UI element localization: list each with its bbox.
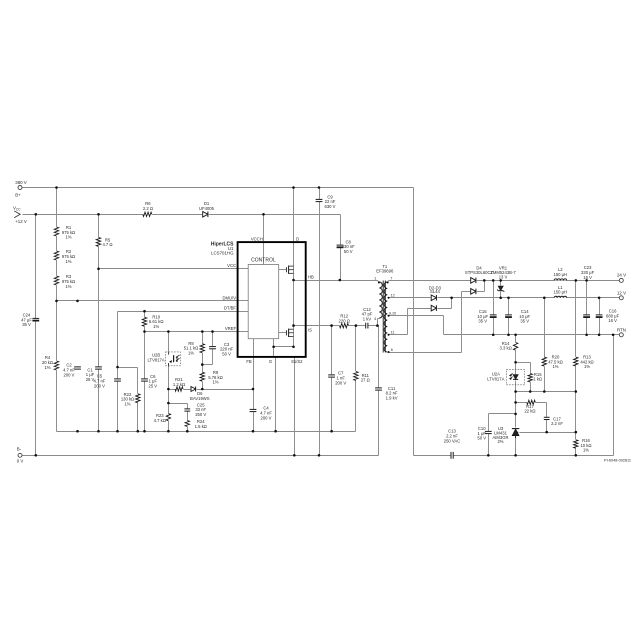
svg-text:3.3 kΩ: 3.3 kΩ [499, 346, 511, 351]
svg-text:1.9 kV: 1.9 kV [386, 395, 398, 400]
svg-text:SL44: SL44 [430, 289, 440, 294]
svg-text:200 V: 200 V [261, 415, 272, 420]
svg-text:1%: 1% [44, 365, 50, 370]
svg-text:B+: B+ [15, 193, 21, 198]
svg-text:200 V: 200 V [64, 372, 75, 377]
svg-text:12 V: 12 V [617, 290, 626, 295]
svg-text:50 V: 50 V [222, 351, 231, 356]
svg-text:7: 7 [390, 277, 392, 281]
svg-text:1%: 1% [65, 259, 71, 264]
svg-text:250 VAC: 250 VAC [444, 438, 460, 443]
svg-text:1%: 1% [583, 448, 589, 453]
svg-text:35 V: 35 V [520, 319, 529, 324]
svg-text:BAV19WS: BAV19WS [190, 396, 210, 401]
svg-text:1%: 1% [584, 364, 590, 369]
svg-text:35 V: 35 V [478, 319, 487, 324]
svg-text:1%: 1% [188, 350, 194, 355]
svg-text:6: 6 [391, 348, 393, 352]
svg-text:1%: 1% [153, 324, 159, 329]
svg-text:13 V: 13 V [499, 274, 508, 279]
svg-text:9,10: 9,10 [389, 312, 396, 316]
svg-text:IS: IS [308, 328, 312, 333]
svg-text:EF39696: EF39696 [376, 269, 394, 274]
svg-text:LTV817A: LTV817A [487, 376, 504, 381]
svg-text:4.7 Ω: 4.7 Ω [102, 242, 112, 247]
svg-text:UF4005: UF4005 [199, 206, 215, 211]
svg-text:1%: 1% [65, 284, 71, 289]
svg-text:2.2 Ω: 2.2 Ω [143, 206, 153, 211]
svg-text:1%: 1% [124, 401, 130, 406]
svg-text:630 V: 630 V [325, 204, 336, 209]
svg-text:50 V: 50 V [477, 436, 486, 441]
svg-text:LCS701HG: LCS701HG [211, 251, 234, 256]
svg-text:1 kΩ: 1 kΩ [533, 377, 542, 382]
svg-text:1%: 1% [65, 235, 71, 240]
svg-text:12: 12 [391, 293, 395, 297]
svg-text:250 V: 250 V [195, 412, 206, 417]
svg-text:RTN: RTN [617, 327, 626, 332]
svg-text:50 V: 50 V [344, 249, 353, 254]
svg-text:2.2 nF: 2.2 nF [551, 421, 563, 426]
svg-text:CONTROL: CONTROL [251, 258, 276, 264]
svg-text:VCCH: VCCH [251, 236, 263, 241]
svg-text:HB: HB [308, 275, 314, 280]
svg-text:22 kΩ: 22 kΩ [524, 409, 535, 414]
svg-text:16 V: 16 V [583, 275, 592, 280]
svg-text:1%: 1% [212, 380, 218, 385]
svg-text:1 kV: 1 kV [363, 316, 372, 321]
svg-text:1.2 kΩ: 1.2 kΩ [173, 382, 185, 387]
svg-text:PI-6048-092811: PI-6048-092811 [604, 459, 631, 463]
svg-text:D: D [296, 236, 299, 241]
svg-text:25 V: 25 V [148, 383, 157, 388]
svg-text:1.5 kΩ: 1.5 kΩ [195, 424, 207, 429]
svg-text:220 Ω: 220 Ω [339, 318, 350, 323]
svg-text:DMU/V: DMU/V [223, 295, 237, 300]
svg-text:LTV817A: LTV817A [148, 358, 165, 363]
svg-text:DT/BF: DT/BF [224, 306, 237, 311]
svg-text:24 V: 24 V [617, 273, 626, 278]
svg-text:16 V: 16 V [608, 318, 617, 323]
svg-text:11: 11 [391, 331, 395, 335]
svg-text:FB: FB [246, 359, 252, 364]
svg-text:150 μH: 150 μH [554, 272, 568, 277]
svg-text:+12 V: +12 V [15, 219, 27, 224]
svg-text:B-: B- [17, 447, 22, 452]
svg-text:G: G [269, 359, 272, 364]
svg-text:S1/S2: S1/S2 [291, 359, 303, 364]
svg-text:1%: 1% [552, 364, 558, 369]
svg-text:VCC: VCC [227, 263, 236, 268]
svg-text:4.7 kΩ: 4.7 kΩ [154, 418, 166, 423]
svg-text:0 V: 0 V [17, 459, 24, 464]
svg-text:380 V: 380 V [15, 180, 27, 185]
svg-text:STPS30L60CT: STPS30L60CT [465, 270, 494, 275]
svg-text:200 V: 200 V [335, 380, 346, 385]
svg-text:VREF: VREF [225, 326, 237, 331]
svg-text:27 Ω: 27 Ω [361, 378, 370, 383]
svg-text:4: 4 [374, 317, 376, 321]
svg-text:1: 1 [374, 277, 376, 281]
svg-text:200 V: 200 V [94, 383, 105, 388]
svg-text:150 μH: 150 μH [554, 290, 568, 295]
svg-text:2%: 2% [497, 439, 503, 444]
svg-text:35 V: 35 V [22, 322, 31, 327]
